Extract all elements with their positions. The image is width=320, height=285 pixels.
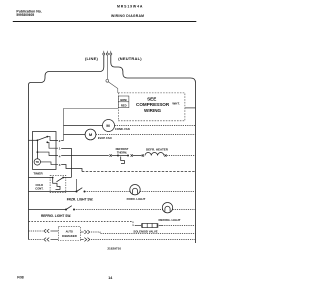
header rule (13, 21, 197, 23)
wire heater to neutral (167, 155, 196, 157)
wire bus to timer pivot (29, 139, 38, 141)
cold control arm (57, 178, 64, 182)
wire line side to left bus (29, 55, 104, 239)
svg-text:CONT.: CONT. (35, 186, 43, 190)
plug prong middle (ground) (106, 53, 108, 55)
timer motor TD (34, 159, 40, 165)
svg-text:WIRING DIAGRAM: WIRING DIAGRAM (111, 14, 144, 18)
svg-text:BRN/: BRN/ (120, 98, 127, 102)
wire therm to heater (133, 155, 142, 157)
ground prong wire (106, 55, 108, 79)
svg-text:MRS19W4A: MRS19W4A (117, 4, 143, 8)
wire bus to cold control (29, 177, 53, 179)
svg-text:WHT.: WHT. (172, 101, 179, 105)
svg-text:REFRIG. LIGHT SW.: REFRIG. LIGHT SW. (41, 214, 71, 218)
compressor box (118, 93, 185, 121)
connector icemaker A left (44, 229, 49, 233)
connector icemaker B left (44, 238, 49, 242)
svg-text:REFRIG. LIGHT: REFRIG. LIGHT (159, 218, 181, 222)
wire freezer light row (29, 191, 77, 193)
solenoid valve (136, 223, 162, 228)
timer wire contact to terminal 2 (47, 137, 58, 141)
svg-text:21829710: 21829710 (107, 246, 121, 250)
wire switch to freezer lamp (85, 191, 131, 193)
wire evap fan feed (64, 134, 86, 136)
cold control box (50, 175, 66, 192)
freezer light switch (76, 191, 78, 193)
riser right of timer (71, 148, 73, 177)
wire water valve feed dashed (29, 221, 134, 223)
ground loop (106, 79, 109, 82)
connector BRN/RED (118, 96, 129, 108)
icemaker box (58, 227, 80, 241)
svg-text:COMPRESSOR: COMPRESSOR (136, 102, 170, 107)
svg-text:SEE: SEE (147, 96, 156, 101)
timer wire motor to terminal 3 (41, 162, 59, 165)
connector icemaker B right (80, 239, 83, 241)
wire icemaker row B left (29, 239, 43, 241)
wire solenoid to neutral (162, 225, 196, 227)
wire freezer lamp to neutral (140, 191, 196, 193)
svg-text:FRZR. LIGHT: FRZR. LIGHT (127, 197, 146, 201)
wire cond fan to neutral (115, 125, 196, 127)
svg-text:DEFR. HEATER: DEFR. HEATER (146, 147, 169, 151)
svg-text:COND. FAN: COND. FAN (115, 127, 130, 131)
wire terminal4 heater row start (61, 155, 109, 157)
svg-text:RED: RED (121, 104, 127, 108)
wire cold control out (63, 177, 71, 179)
svg-text:COLD: COLD (35, 183, 43, 187)
lamp freezer light (130, 185, 140, 195)
wire terminal3 step to neutral run (61, 165, 82, 172)
defrost timer box (33, 132, 57, 170)
wire icemaker row A left (29, 230, 43, 232)
svg-text:TIMER: TIMER (33, 172, 43, 176)
wire WHT to neutral bus (185, 107, 196, 109)
svg-text:5995300605: 5995300605 (16, 13, 34, 17)
plug prong right (110, 53, 112, 55)
cold control bellows (53, 178, 60, 190)
svg-text:FRZR. LIGHT SW.: FRZR. LIGHT SW. (67, 198, 94, 202)
timer switch arm (37, 137, 47, 141)
wire terminal2 to riser (61, 140, 63, 142)
timer internal common (36, 140, 38, 158)
svg-text:F/98: F/98 (17, 276, 24, 280)
svg-text:ICEMAKER: ICEMAKER (62, 234, 77, 238)
motor cond fan (103, 120, 115, 132)
svg-text:THERM.: THERM. (117, 150, 128, 154)
timer wire contact to terminal 1 (47, 142, 58, 148)
wire water valve step (133, 222, 136, 226)
defrost thermostat (110, 154, 133, 163)
wire timer motor neutral run (82, 171, 196, 173)
wire row A to neutral (91, 232, 196, 234)
svg-text:(LINE): (LINE) (85, 56, 98, 61)
defrost heater (142, 153, 167, 157)
wire row B to neutral (91, 239, 196, 241)
ground wire to compressor (108, 82, 117, 93)
motor evap fan (85, 129, 96, 140)
svg-text:(NEUTRAL): (NEUTRAL) (118, 56, 142, 61)
wire cond fan feed (64, 125, 103, 127)
wire refrig lamp to neutral (173, 209, 196, 211)
svg-text:SOLENOID VALVE: SOLENOID VALVE (133, 229, 157, 233)
connector icemaker A right (80, 231, 83, 233)
timer wire pole to terminal 4 (37, 152, 58, 155)
plug prong left (103, 53, 105, 55)
lamp refrig light (162, 203, 172, 213)
svg-text:EVAP. FAN: EVAP. FAN (98, 136, 112, 140)
wire switch to refrig lamp (74, 209, 163, 211)
wire evap fan to neutral (96, 134, 196, 136)
wire refrig light row (29, 209, 67, 211)
wire terminal1 to riser (61, 148, 71, 150)
refrig light switch (65, 209, 67, 211)
wire compressor feed (64, 109, 119, 141)
wire neutral side to right bus (111, 55, 196, 243)
svg-text:TD: TD (36, 160, 40, 164)
svg-text:WIRING: WIRING (144, 108, 162, 113)
